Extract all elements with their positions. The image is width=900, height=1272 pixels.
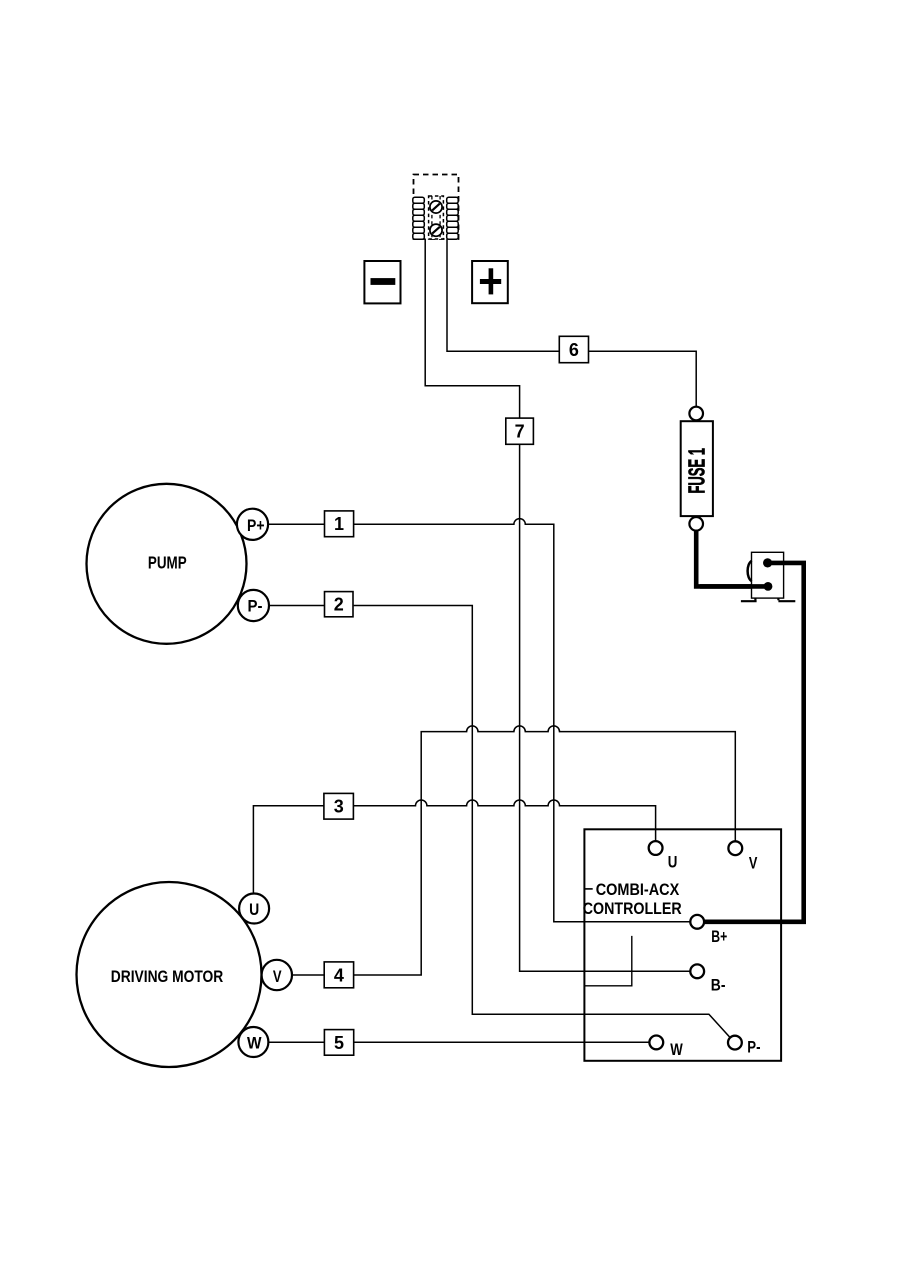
svg-text:U: U [249, 900, 259, 919]
pump terminal P+ [237, 509, 268, 540]
controller terminal B+ [690, 915, 704, 929]
thick cable block top pin to B+ [705, 563, 804, 922]
connector block right foot [778, 598, 795, 601]
svg-text:4: 4 [334, 965, 344, 985]
wire box6 to fuse [589, 351, 697, 406]
svg-text:FUSE 1: FUSE 1 [684, 448, 710, 494]
svg-text:DRIVING MOTOR: DRIVING MOTOR [111, 967, 224, 986]
connector block left foot [741, 598, 757, 601]
box 5 [324, 1030, 353, 1056]
motor terminal V [262, 960, 292, 990]
svg-text:CONTROLLER: CONTROLLER [583, 899, 682, 918]
svg-text:P+: P+ [247, 516, 265, 535]
wire 3 motor U to box3 [253, 806, 324, 894]
wire 4 box4 to controller V [354, 726, 736, 975]
controller terminal B- [690, 964, 704, 978]
pump terminal P- [238, 590, 269, 621]
wire 1 P+ to box1 [268, 523, 324, 525]
controller terminal P- [728, 1036, 742, 1050]
svg-text:P-: P- [248, 597, 263, 616]
wire 3 box3 to controller U [353, 800, 655, 841]
fuse F1 top terminal [689, 407, 703, 421]
box 3 [324, 793, 354, 819]
svg-text:7: 7 [515, 422, 525, 442]
driving motor circle [77, 882, 262, 1067]
battery connector screw bottom [430, 224, 442, 236]
battery connector right spring column [447, 197, 459, 239]
svg-text:B+: B+ [711, 927, 727, 946]
svg-text:PUMP: PUMP [148, 552, 187, 572]
wire 7 box7 to B- [520, 444, 691, 971]
box 2 [325, 592, 354, 617]
svg-text:U: U [668, 852, 678, 871]
svg-text:1: 1 [334, 514, 344, 534]
svg-text:W: W [247, 1033, 262, 1052]
svg-text:W: W [670, 1040, 683, 1059]
box 4 [324, 962, 353, 988]
controller internal L wire [584, 936, 631, 986]
thick cable into block bottom pin [700, 584, 766, 589]
battery connector center dashed column [429, 196, 444, 239]
connector block top pin dot [763, 558, 772, 567]
svg-text:5: 5 [334, 1033, 344, 1053]
fuse F1 body [681, 421, 713, 516]
svg-text:V: V [749, 853, 758, 872]
box 1 [325, 511, 354, 537]
wire 5 box5 to controller W [354, 1041, 650, 1043]
svg-text:V: V [273, 967, 282, 986]
plus symbol box [472, 261, 508, 303]
svg-text:2: 2 [334, 595, 344, 615]
controller label tick [584, 888, 592, 890]
battery connector screw top [430, 201, 442, 213]
wire 2 P- to box2 [269, 605, 325, 607]
wire 5 motor W to box5 [268, 1041, 324, 1043]
connector block left latch arc [748, 561, 752, 581]
pump circle [87, 484, 247, 644]
fuse F1 bottom terminal [689, 517, 703, 531]
motor terminal W [238, 1027, 268, 1057]
wire 4 motor V to box4 [292, 974, 324, 976]
controller box COMBI-ACX [584, 829, 781, 1061]
wire 1 box1 to B+ [354, 519, 691, 922]
wire negative battery to box7 [425, 239, 519, 418]
svg-text:COMBI-ACX: COMBI-ACX [596, 880, 680, 899]
controller terminal W [649, 1036, 663, 1050]
svg-text:B-: B- [711, 976, 726, 995]
wire positive battery to box6 [447, 239, 559, 351]
connector block bottom pin dot [764, 582, 773, 591]
battery connector left spring column [413, 197, 425, 239]
minus symbol box [364, 261, 400, 303]
svg-text:3: 3 [334, 797, 344, 817]
motor terminal U [239, 894, 269, 924]
controller terminal U [649, 841, 663, 855]
connector block [752, 552, 784, 598]
svg-text:6: 6 [569, 340, 579, 360]
wire 2 box2 to P- controller [354, 606, 731, 1039]
controller terminal V [728, 841, 742, 855]
battery connector dashed housing [414, 175, 459, 240]
thick battery positive cable fuse to connector [696, 530, 766, 587]
box 6 [559, 336, 588, 362]
box 7 [506, 418, 534, 444]
svg-text:P-: P- [747, 1037, 760, 1056]
